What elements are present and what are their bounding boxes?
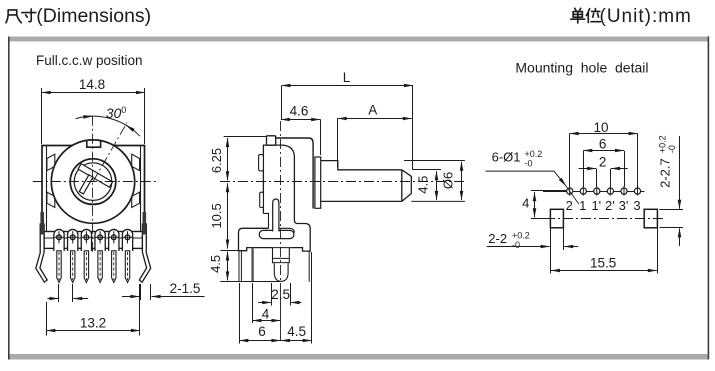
mounting hole 1 — [580, 188, 586, 194]
dim line 4.5 shaft — [436, 171, 438, 200]
dim 14.8 right extension line — [144, 88, 146, 144]
mounting hole 1' — [594, 188, 600, 194]
15.5 right ext — [657, 229, 659, 274]
svg-text:13.2: 13.2 — [80, 316, 106, 331]
svg-text:2': 2' — [605, 198, 615, 213]
svg-text:2.5: 2.5 — [271, 287, 290, 302]
pin 5 front view — [109, 229, 119, 251]
ext line left edge bottom — [239, 283, 241, 344]
slots centerline — [545, 218, 666, 220]
dim line 6 — [239, 340, 280, 342]
ext line base bottom — [220, 250, 239, 252]
dim 2-1.5 left ext — [140, 284, 142, 300]
svg-text:2-2: 2-2 — [488, 231, 507, 246]
svg-text:15.5: 15.5 — [590, 255, 616, 270]
ext line pin tips — [220, 281, 280, 283]
svg-text:+0.2: +0.2 — [525, 149, 543, 159]
header unit 单位(Unit):mm — [571, 8, 601, 23]
svg-text:+0.2: +0.2 — [658, 135, 668, 153]
ext hole1 up — [583, 151, 585, 187]
top notch on rotor ring — [87, 140, 101, 147]
svg-text:3': 3' — [619, 198, 629, 213]
T stem — [273, 199, 279, 232]
svg-text:2: 2 — [566, 198, 573, 213]
dim line 4.6 — [281, 119, 320, 121]
ext line cylinder left — [271, 283, 273, 306]
potentiometer body front view: outer circle — [51, 140, 134, 223]
pcb surface line through holes — [543, 191, 645, 193]
rotor ring inner — [74, 163, 112, 201]
ext hole2 up — [569, 133, 571, 186]
2.5 arrow left — [258, 302, 271, 304]
side view body outline — [267, 136, 276, 145]
dim 14.8 left extension line — [41, 88, 43, 144]
dim line 4 — [253, 320, 281, 322]
svg-text:6.25: 6.25 — [209, 148, 224, 173]
mounting hole 3' — [621, 188, 627, 194]
pitch arrow left — [48, 298, 59, 300]
legs in side view — [239, 251, 241, 282]
svg-text:3: 3 — [633, 198, 640, 213]
ext hole3 up — [637, 133, 639, 186]
svg-text:2: 2 — [599, 155, 607, 170]
2 arrow right — [611, 168, 628, 170]
header title 尺寸(Dimensions) — [6, 9, 36, 23]
bottom flange band — [44, 232, 143, 249]
dim line 13.2 — [46, 330, 139, 332]
ext line cylinder right — [290, 283, 292, 306]
4 top ext — [531, 190, 567, 192]
svg-text:A: A — [368, 103, 377, 118]
ext line right edge bottom — [311, 252, 313, 344]
dim line 4.5 left — [227, 252, 229, 281]
svg-text:-0: -0 — [667, 145, 677, 153]
svg-text:(Dimensions): (Dimensions) — [36, 5, 151, 27]
A left ext line — [337, 118, 339, 167]
2-2 right ext — [563, 229, 565, 251]
side view vertical centerline — [280, 121, 282, 285]
pitch arrow right — [73, 298, 88, 300]
svg-text:Mounting hole detail: Mounting hole detail — [515, 59, 648, 75]
dim 13.2 left ext — [46, 302, 48, 336]
pin 6 front view — [122, 229, 132, 251]
dim 2-1.5 right ext — [150, 284, 152, 300]
svg-text:4: 4 — [262, 306, 270, 321]
svg-text:4.5: 4.5 — [287, 324, 306, 339]
4 bottom ext — [531, 218, 549, 220]
centerline extension to bottom dims — [280, 285, 282, 341]
30 degree arc — [76, 116, 141, 136]
front view horizontal centerline — [33, 181, 156, 183]
svg-text:+0.2: +0.2 — [512, 231, 530, 241]
rotor ring outer — [70, 159, 116, 205]
shaft — [321, 161, 412, 202]
dim line 6.25 — [227, 138, 229, 180]
svg-text:6: 6 — [258, 324, 266, 339]
right bent leg — [139, 224, 150, 282]
svg-text:4.5: 4.5 — [208, 255, 223, 273]
pin 1 front view — [54, 229, 64, 251]
pin 2 front view — [68, 229, 78, 251]
dim line A — [338, 118, 412, 120]
dim line L — [281, 85, 413, 87]
pin 4 front view — [95, 229, 105, 251]
mounting hole 2' — [607, 188, 613, 194]
dim line 15.5 — [551, 270, 657, 272]
dim line 10 — [570, 133, 638, 135]
pitch dim ext line pin1 — [58, 284, 60, 302]
shaft mounting flange — [315, 157, 321, 208]
middle pin pocket and cylinder — [273, 247, 290, 249]
svg-text:(Unit):mm: (Unit):mm — [600, 6, 692, 27]
15.5 left ext — [550, 229, 552, 274]
svg-text:4: 4 — [522, 196, 529, 211]
shaft axis centerline — [220, 181, 464, 183]
30deg rotated centerline — [93, 123, 127, 182]
stadium slot in base — [259, 230, 294, 238]
dim 13.2 right ext — [139, 284, 141, 336]
svg-text:-0: -0 — [512, 240, 520, 250]
ext line shaft flat — [413, 169, 441, 171]
svg-text:-0: -0 — [525, 159, 533, 169]
svg-text:Full.c.c.w position: Full.c.c.w position — [36, 53, 143, 68]
dim line 4 holes — [534, 192, 536, 217]
ext line top of body — [224, 136, 266, 138]
svg-text:Ø6: Ø6 — [441, 172, 456, 189]
svg-text:1': 1' — [591, 198, 601, 213]
2-1.5 arrow left — [122, 296, 139, 298]
left upper side notch — [47, 154, 55, 170]
2-2 arrow right — [564, 246, 578, 248]
right mounting slot 2x2.7 — [644, 209, 657, 228]
pin row side view (dark bar) — [251, 248, 253, 282]
svg-text:14.8: 14.8 — [79, 77, 105, 92]
pitch dim ext line pin2 — [72, 284, 74, 302]
dim line 10.5 — [227, 183, 229, 248]
rotor adjustment slot — [69, 164, 113, 204]
2-2.7 bottom ext — [660, 227, 684, 229]
base slab — [239, 228, 273, 250]
svg-text:L: L — [343, 70, 351, 85]
label 2-2.7 +0.2/-0 rotated — [658, 135, 678, 188]
L left ext / axis ext — [281, 86, 283, 119]
L right ext line — [412, 86, 414, 170]
svg-text:10: 10 — [593, 120, 608, 135]
pin 3 front view — [81, 229, 91, 251]
ext line pin bar — [252, 283, 254, 323]
2-2.7 arrow top — [679, 136, 681, 209]
2-1.5 arrow right — [152, 296, 205, 298]
svg-text:6: 6 — [599, 137, 607, 152]
dim line 6 holes — [583, 150, 624, 152]
2 arrow left — [579, 168, 597, 170]
body side plates — [42, 146, 145, 232]
svg-text:4.5: 4.5 — [415, 176, 430, 194]
svg-text:6-Ø1: 6-Ø1 — [492, 150, 521, 165]
2.5 arrow right — [291, 302, 302, 304]
svg-text:4.6: 4.6 — [290, 104, 309, 119]
2-2 arrow left — [487, 246, 550, 248]
ext hole3p up — [624, 151, 626, 187]
ext hole1p up — [596, 169, 598, 187]
mounting hole 3 — [634, 188, 640, 194]
2-2.7 top ext — [660, 209, 684, 211]
svg-text:10.5: 10.5 — [209, 203, 224, 228]
dim line dia 6 — [461, 162, 463, 200]
border frame — [8, 37, 709, 42]
2-2.7 arrow bottom — [679, 228, 681, 246]
mounting hole 2 — [567, 188, 573, 194]
svg-text:1: 1 — [579, 198, 586, 213]
dim line 4.5 bottom — [281, 340, 312, 342]
left mounting slot 2x2.7 — [550, 209, 563, 228]
ext hole2p up — [610, 169, 612, 187]
4.6 right ext line — [320, 119, 322, 155]
ext line shaft top — [404, 160, 465, 162]
front view vertical centerline — [92, 116, 94, 253]
svg-text:2-1.5: 2-1.5 — [170, 281, 201, 296]
svg-text:2-2.7: 2-2.7 — [658, 158, 673, 188]
dim line 14.8 — [42, 92, 145, 94]
left bent leg — [36, 224, 47, 282]
